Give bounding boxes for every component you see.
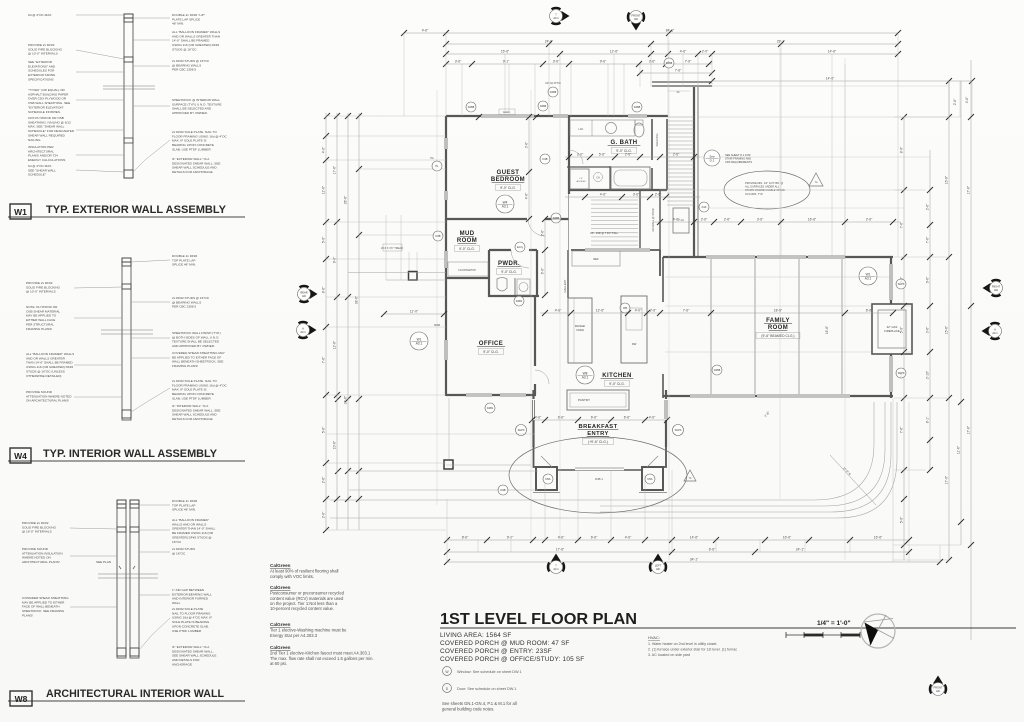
svg-text:at 60 psi.: at 60 psi. bbox=[270, 661, 287, 666]
room label PWDR bbox=[497, 261, 520, 267]
svg-text:D5A: D5A bbox=[545, 477, 550, 481]
svg-text:A: A bbox=[302, 327, 304, 331]
svg-text:16'-6": 16'-6" bbox=[874, 535, 883, 539]
svg-text:2'-6": 2'-6" bbox=[953, 98, 957, 105]
window tag circles on family east wall bbox=[896, 279, 906, 289]
svg-text:7'-6": 7'-6" bbox=[683, 308, 690, 312]
svg-text:RANGE/: RANGE/ bbox=[575, 324, 586, 328]
svg-text:D4B1: D4B1 bbox=[487, 406, 494, 410]
svg-text:@ 10'-0" INTERVALS: @ 10'-0" INTERVALS bbox=[28, 52, 58, 56]
svg-text:2'-6": 2'-6" bbox=[321, 511, 325, 518]
svg-text:2'-0": 2'-0" bbox=[702, 49, 709, 53]
svg-text:6d @ 4"OC MAX.: 6d @ 4"OC MAX. bbox=[28, 13, 52, 17]
svg-text:Energy Star per A4.303.3: Energy Star per A4.303.3 bbox=[270, 633, 318, 638]
general notes bbox=[442, 701, 517, 712]
svg-text:W8: W8 bbox=[15, 694, 28, 704]
section marker bottom FRONT bbox=[930, 676, 946, 694]
svg-text:A: A bbox=[994, 328, 996, 332]
office porch slab lines bbox=[349, 470, 538, 472]
svg-text:2'-6": 2'-6" bbox=[540, 229, 544, 236]
svg-text:6'-6": 6'-6" bbox=[709, 547, 716, 551]
svg-text:15'-6": 15'-6" bbox=[944, 175, 948, 184]
svg-text:A3.1: A3.1 bbox=[582, 375, 589, 379]
svg-text:LIVING AREA: 1564 SF: LIVING AREA: 1564 SF bbox=[440, 632, 512, 639]
reference circle W1/A3.1 left bbox=[410, 332, 428, 350]
svg-text:9'-0" CLG.: 9'-0" CLG. bbox=[609, 382, 625, 386]
svg-text:16'-6": 16'-6" bbox=[783, 535, 792, 539]
svg-text:A3.1: A3.1 bbox=[416, 341, 423, 345]
svg-text:6'-0": 6'-0" bbox=[540, 267, 544, 274]
svg-text:7'-6": 7'-6" bbox=[675, 68, 682, 72]
svg-text:Window: See schedule on sheet: Window: See schedule on sheet DW.1 bbox=[457, 670, 522, 674]
svg-text:A3.1: A3.1 bbox=[992, 331, 998, 335]
svg-text:5'-6": 5'-6" bbox=[599, 152, 606, 156]
svg-text:15'-6": 15'-6" bbox=[944, 325, 948, 334]
svg-text:HD: HD bbox=[994, 288, 998, 292]
svg-text:4'-6": 4'-6" bbox=[555, 308, 562, 312]
svg-text:2'-6": 2'-6" bbox=[701, 217, 708, 221]
svg-text:SHP6: SHP6 bbox=[898, 371, 905, 375]
wall detail W1: TYP. EXTERIOR WALL ASSEMBLY bbox=[8, 13, 245, 219]
svg-text:3'-6": 3'-6" bbox=[553, 59, 560, 63]
window and door tags bbox=[466, 102, 476, 112]
W4 left annotations bbox=[26, 281, 61, 294]
svg-text:3'-6": 3'-6" bbox=[633, 192, 640, 196]
guest bedroom interior vdim bbox=[528, 117, 530, 219]
svg-text:RIGHT: RIGHT bbox=[992, 285, 1000, 289]
door symbol note bbox=[443, 684, 452, 693]
W8 left annotations bbox=[22, 521, 57, 534]
reference circle W1/A3.1 family room bbox=[859, 267, 877, 285]
section marker top 7/A3.1 bbox=[552, 8, 570, 24]
room label BREAKFAST ENTRY bbox=[578, 424, 619, 437]
svg-text:9'-1": 9'-1" bbox=[503, 59, 510, 63]
svg-text:24'-6": 24'-6" bbox=[343, 395, 347, 404]
svg-text:28'-1": 28'-1" bbox=[777, 39, 786, 43]
svg-text:A3.1: A3.1 bbox=[502, 204, 509, 208]
svg-text:HD: HD bbox=[302, 294, 306, 298]
svg-text:24'-6": 24'-6" bbox=[545, 39, 554, 43]
svg-text:84'-1": 84'-1" bbox=[666, 28, 675, 32]
svg-text:OCCURS. TYP.: OCCURS. TYP. bbox=[745, 192, 763, 196]
svg-text:D4B1: D4B1 bbox=[516, 299, 523, 303]
svg-text:CalGreen: CalGreen bbox=[270, 585, 291, 590]
svg-text:TYP. INTERIOR WALL ASSEMBLY: TYP. INTERIOR WALL ASSEMBLY bbox=[43, 448, 218, 460]
svg-text:38'-6": 38'-6" bbox=[354, 295, 358, 304]
left dimension columns bbox=[321, 113, 362, 533]
svg-text:4'-6": 4'-6" bbox=[600, 192, 607, 196]
svg-text:comply with VOC limits.: comply with VOC limits. bbox=[270, 574, 314, 579]
svg-text:16'-6": 16'-6" bbox=[825, 325, 829, 334]
kitchen walls bbox=[571, 249, 660, 251]
svg-text:9'-2": 9'-2" bbox=[507, 535, 514, 539]
svg-text:COVERED PORCH @ ENTRY: 23SF: COVERED PORCH @ ENTRY: 23SF bbox=[440, 648, 552, 655]
section marker bottom LEFT bbox=[650, 554, 666, 572]
svg-text:34'-1": 34'-1" bbox=[690, 557, 699, 561]
svg-text:CalGreen: CalGreen bbox=[270, 563, 291, 568]
room label GUEST BEDROOM bbox=[491, 170, 525, 183]
svg-text:11'-0": 11'-0" bbox=[410, 309, 419, 313]
svg-text:COVERED PORCH @ MUD ROOM: 47 S: COVERED PORCH @ MUD ROOM: 47 SF bbox=[440, 640, 570, 647]
svg-text:A3.1: A3.1 bbox=[553, 16, 559, 20]
svg-text:SCHEDULE FINISHES.: SCHEDULE FINISHES. bbox=[28, 110, 61, 114]
svg-text:GALLERY: GALLERY bbox=[563, 279, 567, 292]
left extension horizontals bbox=[326, 116, 446, 530]
svg-text:17'-6": 17'-6" bbox=[966, 185, 970, 194]
svg-text:7'-6": 7'-6" bbox=[899, 426, 903, 433]
svg-text:ALL SURFACES UNDER ALL: ALL SURFACES UNDER ALL bbox=[745, 185, 780, 189]
bottom dimension rows bbox=[444, 535, 943, 565]
svg-text:D4B8: D4B8 bbox=[468, 105, 475, 109]
svg-text:4'-6": 4'-6" bbox=[535, 415, 542, 419]
svg-text:A3.1: A3.1 bbox=[300, 330, 306, 334]
svg-text:W1: W1 bbox=[14, 207, 27, 217]
svg-text:7'-6": 7'-6" bbox=[685, 59, 692, 63]
upper stair flight treads bbox=[667, 117, 694, 205]
lower stair flight treads bbox=[591, 200, 638, 245]
window symbol note bbox=[443, 667, 452, 676]
W8 double stud columns bbox=[117, 500, 126, 658]
svg-text:4'-6": 4'-6" bbox=[321, 146, 325, 153]
svg-text:REAR: REAR bbox=[300, 291, 307, 295]
svg-text:2'-6": 2'-6" bbox=[866, 217, 873, 221]
svg-text:1. Water heater on 2nd level i: 1. Water heater on 2nd level in utility … bbox=[648, 642, 717, 646]
W8 right annotations bbox=[172, 499, 198, 512]
bottom extension verticals bbox=[447, 398, 940, 562]
svg-text:4'-6": 4'-6" bbox=[649, 415, 656, 419]
svg-text:DETAILS FOR ANCHORAGE: DETAILS FOR ANCHORAGE bbox=[172, 417, 213, 421]
svg-text:@ 10'-0" INTERVALS: @ 10'-0" INTERVALS bbox=[26, 290, 56, 294]
svg-text:D4B8: D4B8 bbox=[540, 104, 547, 108]
room label OFFICE bbox=[477, 341, 505, 347]
stair closet box bbox=[673, 208, 689, 233]
svg-text:4'-6": 4'-6" bbox=[625, 535, 632, 539]
svg-text:1/4" = 1'-0": 1/4" = 1'-0" bbox=[817, 620, 851, 627]
reference circle W8/A3.1 kitchen bbox=[576, 366, 594, 384]
family room faint horizontal grid lines bbox=[665, 276, 890, 278]
svg-text:2'-10": 2'-10" bbox=[925, 370, 929, 379]
svg-text:PL: PL bbox=[435, 164, 439, 168]
section marker right A/A3.1 bbox=[982, 323, 1000, 339]
section marker bottom 7/A3.1 bbox=[548, 554, 564, 572]
svg-text:2'-6": 2'-6" bbox=[925, 203, 929, 210]
svg-text:6'-6": 6'-6" bbox=[558, 415, 565, 419]
svg-text:SLAB, USE PTDF LUMBER: SLAB, USE PTDF LUMBER bbox=[172, 396, 211, 400]
W1 left annotations bbox=[28, 13, 52, 17]
room label G BATH bbox=[608, 140, 641, 146]
W4 right annotations bbox=[172, 254, 198, 267]
patio and driveway curve lines bbox=[330, 402, 897, 518]
svg-text:26.6 X 1'6" TREAD: 26.6 X 1'6" TREAD bbox=[381, 246, 403, 250]
svg-text:4'-6": 4'-6" bbox=[422, 28, 429, 32]
svg-text:ON ARCHITECTURAL PLANS!: ON ARCHITECTURAL PLANS! bbox=[26, 399, 69, 403]
svg-text:48" MIN.: 48" MIN. bbox=[172, 22, 184, 26]
svg-text:SHP6: SHP6 bbox=[898, 282, 905, 286]
room label KITCHEN bbox=[601, 373, 634, 379]
svg-text:9'-0" CLG.: 9'-0" CLG. bbox=[459, 247, 475, 251]
svg-text:SHELVING: SHELVING bbox=[655, 134, 659, 147]
svg-text:9'-0" CLG.: 9'-0" CLG. bbox=[500, 186, 516, 190]
svg-text:COVERED PORCH @ OFFICE/STUDY:: COVERED PORCH @ OFFICE/STUDY: 105 SF bbox=[440, 656, 584, 663]
svg-text:(9'-6" BEAMED CLG.): (9'-6" BEAMED CLG.) bbox=[761, 334, 794, 338]
W1 wall break lines bbox=[103, 85, 155, 87]
svg-text:2'-6": 2'-6" bbox=[321, 476, 325, 483]
svg-text:24'-1": 24'-1" bbox=[796, 547, 805, 551]
svg-text:D4B: D4B bbox=[500, 488, 505, 492]
svg-text:D.1: D.1 bbox=[710, 158, 715, 162]
reference circle W4/A3.1 guest bedroom bbox=[496, 195, 514, 213]
small triangle marker near stairs bbox=[809, 173, 823, 186]
svg-text:PER CBC 2308.5: PER CBC 2308.5 bbox=[172, 68, 196, 72]
svg-text:3068: 3068 bbox=[434, 323, 441, 327]
svg-text:general building code notes.: general building code notes. bbox=[442, 707, 494, 712]
svg-text:4'-6": 4'-6" bbox=[965, 96, 969, 103]
svg-text:UP - 16R @ 7 3/4" TALL: UP - 16R @ 7 3/4" TALL bbox=[590, 231, 619, 235]
svg-text:D4B8: D4B8 bbox=[634, 105, 641, 109]
svg-text:6'-6": 6'-6" bbox=[591, 415, 598, 419]
svg-text:W8: W8 bbox=[623, 306, 627, 310]
svg-text:SPLICE 48" MIN.: SPLICE 48" MIN. bbox=[172, 263, 196, 267]
svg-text:5'-0": 5'-0" bbox=[899, 326, 903, 333]
svg-text:LEFT: LEFT bbox=[655, 564, 662, 568]
svg-text:USE PTDF LUMBER: USE PTDF LUMBER bbox=[172, 629, 202, 633]
svg-text:REF: REF bbox=[593, 257, 599, 261]
svg-text:2x6 WALL @ STAIR: 2x6 WALL @ STAIR bbox=[651, 208, 655, 231]
door swing arcs bbox=[569, 150, 583, 164]
svg-text:5'-0": 5'-0" bbox=[899, 516, 903, 523]
svg-text:CalGreen: CalGreen bbox=[270, 622, 291, 627]
hall walls bbox=[568, 116, 570, 194]
svg-text:FRAMING PLANS!: FRAMING PLANS! bbox=[172, 364, 198, 368]
svg-text:CH: CH bbox=[596, 177, 600, 180]
svg-text:FRAMING PLANS!: FRAMING PLANS! bbox=[26, 327, 52, 331]
W4 stud column bbox=[122, 258, 131, 420]
mud room covered porch bbox=[409, 272, 418, 281]
svg-text:4'-6": 4'-6" bbox=[673, 217, 680, 221]
svg-text:17'-6": 17'-6" bbox=[966, 425, 970, 434]
family room walls bbox=[663, 256, 893, 258]
scale bar bbox=[786, 632, 860, 638]
room label MUD ROOM bbox=[457, 231, 477, 244]
svg-text:9'-0" CLG.: 9'-0" CLG. bbox=[501, 270, 517, 274]
svg-text:ARCHITECTURAL PLANS!: ARCHITECTURAL PLANS! bbox=[22, 560, 60, 564]
fireplace bbox=[872, 304, 912, 354]
powder room walls bbox=[489, 249, 511, 251]
svg-text:16"OC: 16"OC bbox=[172, 540, 182, 544]
svg-text:SEE SHEET D.1 FOR: SEE SHEET D.1 FOR bbox=[725, 153, 751, 157]
guest bath walls bbox=[569, 189, 667, 191]
svg-text:SPECIFICATIONS: SPECIFICATIONS bbox=[28, 77, 54, 81]
svg-text:2. (1) furnace under exterior: 2. (1) furnace under exterior stair for … bbox=[648, 647, 737, 651]
interior dimension rows bbox=[565, 156, 700, 158]
svg-text:1ST LEVEL FLOOR PLAN: 1ST LEVEL FLOOR PLAN bbox=[440, 611, 637, 628]
svg-text:SCHEDULE": SCHEDULE" bbox=[28, 173, 46, 177]
svg-text:A3.1: A3.1 bbox=[553, 567, 559, 571]
CalGreen notes bbox=[270, 563, 374, 666]
svg-text:14'-6": 14'-6" bbox=[690, 535, 699, 539]
stair note ellipse bbox=[724, 171, 810, 209]
svg-text:12'-6": 12'-6" bbox=[332, 340, 336, 349]
svg-text:STAIR FRAMING AND: STAIR FRAMING AND bbox=[725, 157, 751, 161]
svg-text:HD: HD bbox=[936, 689, 940, 693]
svg-text:PROVIDE MIN. 1/2" GYP. BD. @: PROVIDE MIN. 1/2" GYP. BD. @ bbox=[745, 181, 783, 185]
breakfast entry walls bbox=[532, 390, 534, 399]
svg-text:D4B 1: D4B 1 bbox=[595, 477, 603, 481]
svg-text:CalGreen: CalGreen bbox=[270, 645, 291, 650]
svg-text:PANTRY: PANTRY bbox=[578, 398, 590, 402]
svg-text:See sheets GN.1-GN.4, P.1 & M.: See sheets GN.1-GN.4, P.1 & M.1 for all bbox=[442, 701, 517, 706]
hall vdim x=545 bbox=[544, 219, 546, 296]
svg-text:W4: W4 bbox=[14, 451, 27, 461]
svg-text:UP 1/2 ATTIC: UP 1/2 ATTIC bbox=[545, 81, 561, 85]
kitchen counter and island bbox=[568, 298, 592, 363]
svg-text:OVEN: OVEN bbox=[576, 328, 584, 332]
svg-text:9'-6": 9'-6" bbox=[600, 59, 607, 63]
svg-text:8'-6": 8'-6" bbox=[321, 286, 325, 293]
section marker left REAR bbox=[300, 286, 318, 302]
svg-text:15'-6": 15'-6" bbox=[501, 49, 510, 53]
svg-text:14'-6": 14'-6" bbox=[828, 49, 837, 53]
svg-text:PA: PA bbox=[430, 156, 434, 160]
W1 right annotations bbox=[172, 13, 205, 26]
svg-text:D4B8: D4B8 bbox=[714, 368, 721, 372]
svg-text:D4B: D4B bbox=[435, 234, 440, 238]
svg-text:17'-6": 17'-6" bbox=[332, 165, 336, 174]
north arrow bbox=[861, 614, 895, 648]
svg-text:ENERGY CALCULATIONS: ENERGY CALCULATIONS bbox=[28, 158, 65, 162]
svg-text:SEE PLAN: SEE PLAN bbox=[96, 560, 111, 564]
svg-text:SLAB, USE PTDF LUMBER: SLAB, USE PTDF LUMBER bbox=[172, 147, 211, 151]
svg-text:2'-6": 2'-6" bbox=[724, 217, 731, 221]
svg-text:8'-0": 8'-0" bbox=[899, 146, 903, 153]
svg-text:D4B5: D4B5 bbox=[553, 216, 560, 220]
svg-text:TYP. EXTERIOR WALL ASSEMBLY: TYP. EXTERIOR WALL ASSEMBLY bbox=[46, 204, 227, 216]
svg-text:HD: HD bbox=[656, 567, 660, 571]
svg-text:SHP6: SHP6 bbox=[518, 428, 525, 432]
svg-text:2'-6": 2'-6" bbox=[650, 308, 657, 312]
svg-text:DETAILS FOR ANCHORAGE: DETAILS FOR ANCHORAGE bbox=[172, 170, 213, 174]
W8 wall break lines bbox=[98, 573, 158, 575]
svg-text:HD: HD bbox=[634, 17, 638, 21]
svg-text:5'-6": 5'-6" bbox=[321, 426, 325, 433]
W4 wall break lines bbox=[101, 329, 153, 331]
svg-text:16'-6": 16'-6" bbox=[808, 217, 817, 221]
svg-text:12'-6": 12'-6" bbox=[610, 49, 619, 53]
area summary bbox=[440, 632, 584, 663]
svg-text:Entry: Entry bbox=[517, 245, 524, 249]
svg-text:PLANS!: PLANS! bbox=[22, 613, 33, 617]
svg-text:12'-6": 12'-6" bbox=[321, 185, 325, 194]
svg-text:4'-6": 4'-6" bbox=[680, 49, 687, 53]
svg-text:5'-0": 5'-0" bbox=[321, 236, 325, 243]
powder room fixtures bbox=[497, 278, 507, 292]
svg-text:DW: DW bbox=[632, 342, 637, 346]
svg-text:26'-6": 26'-6" bbox=[343, 195, 347, 204]
svg-text:6'-6": 6'-6" bbox=[591, 535, 598, 539]
entry porch posts bbox=[534, 447, 537, 467]
svg-text:PER CBC 2308.5: PER CBC 2308.5 bbox=[172, 305, 196, 309]
svg-text:4'-6": 4'-6" bbox=[558, 535, 565, 539]
room label FAMILY ROOM bbox=[764, 318, 792, 331]
svg-text:AND APPROVED BY OWNER.: AND APPROVED BY OWNER. bbox=[172, 344, 215, 348]
svg-text:9'-6": 9'-6" bbox=[332, 256, 336, 263]
svg-text:17'-0": 17'-0" bbox=[944, 475, 948, 484]
svg-text:D10: D10 bbox=[702, 205, 707, 209]
svg-text:FRONT: FRONT bbox=[632, 14, 641, 18]
svg-text:FIREPLACE: FIREPLACE bbox=[884, 329, 900, 333]
wall detail W8: ARCHITECTURAL INTERIOR WALL bbox=[8, 499, 245, 706]
office covered porch bbox=[444, 460, 453, 469]
svg-text:OTHERWISE DETAILED): OTHERWISE DETAILED) bbox=[26, 374, 61, 378]
svg-text:CRS REQUIREMENTS: CRS REQUIREMENTS bbox=[725, 160, 752, 164]
svg-text:D4B8: D4B8 bbox=[666, 61, 673, 65]
bath fixtures bbox=[570, 120, 635, 136]
svg-text:COUNTERTOP: COUNTERTOP bbox=[458, 268, 476, 272]
svg-text:3'-6": 3'-6" bbox=[524, 141, 528, 148]
svg-text:D5A: D5A bbox=[647, 477, 652, 481]
svg-text:6'-6": 6'-6" bbox=[866, 308, 873, 312]
reference circle See D.1 bbox=[704, 150, 720, 166]
right extension horizontals bbox=[893, 117, 961, 560]
entry porch ellipse bbox=[509, 437, 687, 513]
svg-text:18'-6": 18'-6" bbox=[774, 308, 783, 312]
W1 stud column bbox=[124, 14, 133, 178]
svg-text:LAV.: LAV. bbox=[578, 127, 583, 131]
svg-text:8'-1": 8'-1" bbox=[925, 416, 929, 423]
section marker left A/A3.1 bbox=[299, 322, 317, 338]
svg-text:HVAC:: HVAC: bbox=[648, 635, 660, 640]
svg-text:17'-6": 17'-6" bbox=[556, 547, 565, 551]
kitchen pantry counter bbox=[567, 390, 629, 410]
svg-text:3. AC located on side yard: 3. AC located on side yard bbox=[648, 653, 690, 657]
svg-text:3'-6": 3'-6" bbox=[649, 59, 656, 63]
svg-text:ARCHITECTURAL INTERIOR WALL: ARCHITECTURAL INTERIOR WALL bbox=[46, 688, 224, 700]
long construction grid verticals bbox=[530, 90, 532, 540]
svg-text:APPROVED BY OWNER.: APPROVED BY OWNER. bbox=[172, 111, 208, 115]
wall detail W4: TYP. INTERIOR WALL ASSEMBLY bbox=[8, 254, 245, 463]
svg-text:7'-6": 7'-6" bbox=[321, 356, 325, 363]
svg-text:3'-6": 3'-6" bbox=[925, 326, 929, 333]
svg-text:@ 16"OC: @ 16"OC bbox=[172, 551, 186, 555]
svg-text:ELEC.: ELEC. bbox=[503, 110, 511, 114]
svg-text:STUDS @ 16"OC: STUDS @ 16"OC bbox=[172, 47, 197, 51]
family room ceiling beam lines bbox=[710, 259, 712, 394]
svg-text:10'-6": 10'-6" bbox=[332, 440, 336, 449]
svg-text:D4B8: D4B8 bbox=[550, 90, 557, 94]
svg-text:14'-6": 14'-6" bbox=[826, 76, 835, 80]
plan: exterior walls bbox=[297, 8, 1017, 712]
section marker top FRONT bbox=[628, 13, 644, 31]
svg-text:A3.1: A3.1 bbox=[865, 276, 872, 280]
svg-text:4'-6": 4'-6" bbox=[524, 192, 528, 199]
svg-text:D4B: D4B bbox=[542, 157, 547, 161]
svg-text:3'-6": 3'-6" bbox=[455, 59, 462, 63]
svg-text:7'-6": 7'-6" bbox=[925, 236, 929, 243]
top dimension rows bbox=[401, 28, 975, 105]
svg-text:6'-6": 6'-6" bbox=[624, 415, 631, 419]
top extension verticals bbox=[404, 33, 972, 257]
W8 SEE PLAN note bbox=[96, 560, 111, 564]
svg-text:10-percent recycled content va: 10-percent recycled content value. bbox=[270, 606, 334, 611]
svg-text:9'-6": 9'-6" bbox=[925, 276, 929, 283]
svg-text:ANCHORAGE: ANCHORAGE bbox=[172, 662, 192, 666]
svg-text:ACCESS: ACCESS bbox=[577, 180, 587, 183]
svg-text:FRONT: FRONT bbox=[934, 686, 943, 690]
svg-text:(+9'-6" CLG.): (+9'-6" CLG.) bbox=[588, 440, 608, 444]
svg-text:3'-6": 3'-6" bbox=[757, 217, 764, 221]
svg-text:@ 16'-0" INTERVALS: @ 16'-0" INTERVALS bbox=[22, 530, 52, 534]
svg-text:SPLICE 48" MIN.: SPLICE 48" MIN. bbox=[172, 508, 196, 512]
